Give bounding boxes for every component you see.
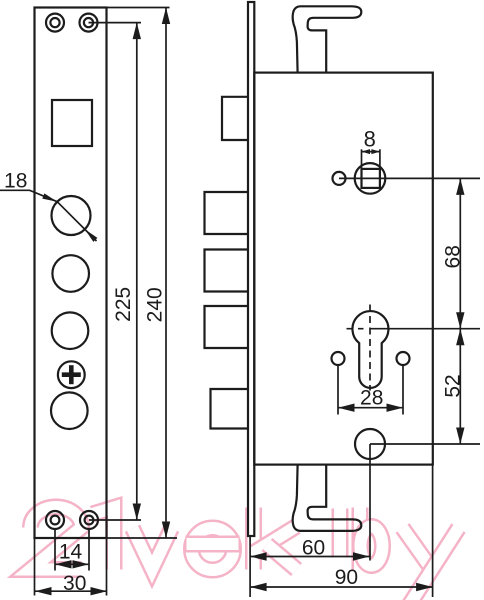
- svg-text:52: 52: [441, 374, 464, 397]
- screw hole bottom-right inner: [85, 516, 94, 525]
- M5 ext lines: [337, 365, 339, 415]
- arrow 60 left: [250, 552, 267, 560]
- ext line from top screw hole: [89, 22, 142, 24]
- svg-text:14: 14: [59, 541, 83, 564]
- plate side ext lines: [34, 538, 36, 596]
- arrow 28 right: [387, 404, 404, 412]
- watermark letter v: [133, 528, 172, 569]
- ext lines bottom screws: [54, 530, 56, 571]
- body right ext line: [432, 465, 434, 597]
- hole d18 circle: [52, 196, 91, 235]
- cylinder axis line: [370, 328, 481, 330]
- watermark letter b bowl: [361, 527, 383, 566]
- arrow 240 down: [162, 522, 170, 539]
- lock body: [254, 73, 432, 465]
- screw hole top-right outer: [80, 14, 98, 32]
- spindle follower circle: [355, 163, 386, 194]
- arrow 90 left: [250, 583, 267, 591]
- svg-text:90: 90: [335, 566, 358, 589]
- ext of plate bottom edge: [35, 537, 178, 539]
- top hook bolt: [293, 6, 362, 72]
- dim line 68: [459, 178, 461, 328]
- watermark letter k arm: [254, 527, 296, 553]
- bottom hole axis lines: [370, 443, 480, 445]
- watermark letter y tail: [406, 528, 459, 600]
- dim line 8: [362, 151, 380, 153]
- ext line from bottom screw hole: [89, 519, 141, 521]
- hole circle 3: [52, 312, 89, 349]
- watermark letter y left arm: [403, 528, 432, 570]
- watermark letter 2: [31, 507, 82, 570]
- euro cylinder keyhole: [352, 311, 388, 388]
- faceplate front view: [35, 8, 107, 539]
- svg-text:68: 68: [441, 245, 464, 268]
- arrow 14 right: [73, 560, 90, 568]
- svg-text:8: 8: [364, 126, 376, 151]
- dim line 30: [35, 590, 107, 592]
- watermark separator bar: [332, 509, 349, 558]
- arrow 28 left: [338, 404, 355, 412]
- cross inside knob circle: [62, 365, 81, 384]
- dim line 240: [165, 8, 167, 539]
- svg-text:225: 225: [112, 287, 135, 322]
- svg-text:240: 240: [144, 287, 167, 322]
- svg-text:28: 28: [360, 387, 383, 410]
- arrow 8 right: [371, 149, 380, 154]
- hole circle 4: [51, 392, 88, 429]
- 8 dim ext lines: [361, 149, 363, 169]
- arrow 52 down: [456, 428, 464, 445]
- arrow 14 left: [55, 560, 72, 568]
- deadbolt tab 2: [205, 192, 249, 234]
- dim line 60: [250, 556, 369, 558]
- bolt tab 5: [211, 389, 249, 429]
- arrow 240 up: [162, 8, 170, 25]
- watermark letter k stem: [245, 508, 262, 570]
- spindle axis line: [339, 177, 480, 179]
- dim line 14: [55, 563, 89, 565]
- dim line 28: [338, 407, 403, 409]
- screw hole bottom-right outer: [80, 511, 98, 529]
- arrow 90 right: [416, 583, 433, 591]
- deadbolt tab 4: [205, 306, 249, 348]
- square latch hole: [52, 100, 92, 146]
- ext of plate top edge: [107, 7, 170, 9]
- latch bolt tab 1: [222, 97, 248, 140]
- watermark letter b stem: [352, 508, 369, 570]
- arrow 8 left: [362, 149, 371, 154]
- bottom hole circle: [355, 429, 385, 459]
- arrow 30 right: [91, 587, 108, 595]
- arrow d18 upper: [42, 193, 57, 201]
- deadbolt tab 3: [205, 250, 249, 292]
- bottom hook bolt: [293, 465, 362, 531]
- screw hole bottom-left inner: [51, 516, 60, 525]
- watermark 21vek.by: [31, 507, 459, 600]
- hole circle 2: [52, 255, 89, 292]
- side view faceplate strip: [248, 2, 254, 536]
- dim line 52: [459, 329, 461, 444]
- arrow 30 left: [35, 587, 52, 595]
- arrow 225 down: [133, 504, 141, 521]
- cross knob circle: [58, 361, 85, 388]
- arrow 68 up: [456, 178, 464, 195]
- strip bottom ext line: [249, 536, 251, 597]
- arrow 52 up: [456, 329, 464, 346]
- dim line 90: [250, 586, 433, 588]
- screw hole bottom-left outer: [46, 511, 64, 529]
- dashed centerlines of keyhole: [347, 305, 371, 391]
- M5 screw hole left: [332, 352, 345, 365]
- svg-text:18: 18: [4, 170, 27, 193]
- screw hole top-right inner: [84, 18, 93, 27]
- watermark letter e bar: [186, 536, 240, 553]
- arrow 60 right: [353, 552, 370, 560]
- arrow 68 down: [456, 312, 464, 329]
- watermark letter k leg: [267, 545, 297, 570]
- screw hole top-left outer: [46, 14, 64, 32]
- svg-text:30: 30: [63, 572, 86, 595]
- watermark letter e bowl: [192, 528, 234, 570]
- dim line 225: [136, 23, 138, 520]
- screw hole top-left inner: [50, 18, 59, 27]
- leader 18 underline: [0, 190, 57, 201]
- arrow d18 lower: [85, 229, 98, 242]
- d18 diagonal line: [57, 202, 96, 241]
- spindle square 8mm: [362, 169, 380, 188]
- M5 screw hole right: [397, 352, 410, 365]
- svg-text:60: 60: [302, 536, 325, 559]
- arrow 225 up: [133, 23, 141, 39]
- small pin hole left of spindle: [333, 172, 346, 185]
- watermark letter 1: [93, 508, 115, 570]
